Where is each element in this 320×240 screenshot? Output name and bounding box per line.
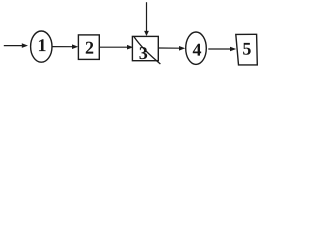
- box 5: [236, 34, 257, 65]
- wire: box 2 to box 3: [100, 45, 134, 50]
- wire: input arrow into node 1: [4, 43, 28, 48]
- box 3 with diagonal slash: [132, 36, 160, 64]
- node 1 (ellipse): [31, 31, 52, 62]
- wire: node 1 to box 2: [52, 44, 79, 49]
- wire: box 3 to node 4: [159, 46, 185, 51]
- node 4 (ellipse): [186, 32, 207, 64]
- wire: node 4 to box 5: [208, 47, 236, 52]
- wire: vertical arrow into box 3: [144, 2, 149, 36]
- box 2: [78, 35, 99, 60]
